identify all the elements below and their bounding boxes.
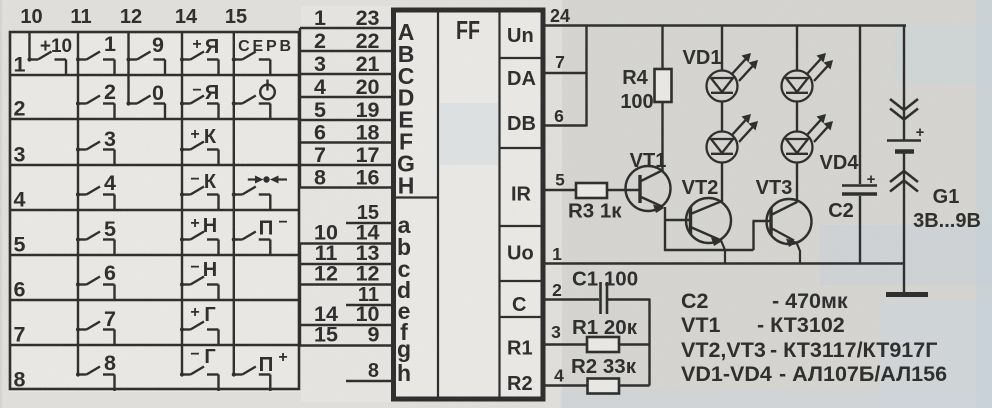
key label "П+" [259,349,288,376]
VD1 lower arrows [732,114,758,142]
VT2 collector wire [721,162,723,202]
ladder wire pin 8 [346,380,393,382]
VD1 chain top wire [721,25,723,72]
VT3 emitter bend wire [796,242,800,265]
key switch "−Г" (row 8, col 14) [180,367,219,392]
wire R3 to VT1 base [607,189,640,191]
key switch "5" (row 5, col 11) [76,232,115,257]
chip right strip divider y226 [500,225,543,227]
light scan area ladder [301,6,397,402]
key switch "2" (row 2, col 11) [76,96,115,121]
battery mid wire [903,153,905,292]
ladder wire pin 15 [346,222,393,224]
key switch "СЕРВ" (row 1, col 15) [232,52,271,77]
column 12 wire [127,31,129,104]
key switch "8" (row 8, col 11) [76,367,115,392]
VD4 upper arrows [807,53,833,81]
column 11 wire [77,31,79,375]
resistor R1 [587,337,619,352]
power symbol [260,80,275,100]
key switch "П−" (row 5, col 15) [232,232,271,257]
battery break chevrons upper [890,99,918,120]
key label "+Я" [192,36,219,58]
wire to VT3 base [753,220,772,222]
VD4 chain top wire [796,25,798,72]
pin 6 wire (DB) [542,124,587,126]
ladder left edge wire [299,28,301,188]
capacitor C2 [842,186,877,195]
chip interior [393,9,544,400]
blue tint bottom right [880,300,992,408]
pin 7 wire (DA) [542,72,587,74]
pin 5 wire (IR) [542,189,576,191]
C2 bottom wire [859,196,861,265]
key label "+К" [190,126,217,148]
ground rail wire (pin 1/Uo) [542,262,904,265]
ladder wire 15-9 [300,344,393,346]
resistor R4 [655,69,672,102]
key switch "9" (row 1, col 12) [126,52,165,77]
ladder wire 7-17 [300,164,393,166]
key label "−Н" [190,259,217,281]
key switch "+Я" (row 1, col 14) [180,52,219,77]
ladder 2 left edge wire [299,244,301,346]
ladder wire 6-18 [300,141,393,143]
key switch "+Г" (row 7, col 14) [180,322,219,347]
VD4 chain middle wire [796,101,798,132]
ladder wire 11-13 [300,263,393,265]
R4 to VT1 collector wire [661,102,663,172]
key switch "П+" (row 8, col 15) [232,367,271,392]
ladder wire 1-23 [300,27,393,29]
key switch "−Н" (row 6, col 14) [180,277,219,302]
chip right strip divider y58 [500,57,543,59]
supply rail wire (pin 24) [542,24,906,27]
VT1 emitter wire down [664,207,666,251]
R2 to node wire [619,384,650,386]
battery G1 plus plate [887,139,921,142]
keypad row 5 wire [9,254,299,256]
blue tint bottom strip [560,390,980,408]
keypad row 1 wire [9,74,299,76]
DA/DB junction wire [585,25,587,127]
key switch "0" (row 2, col 12) [126,96,165,121]
transistor VT3 [767,199,812,247]
LED VD4 (lower) [782,132,813,163]
VD1 upper arrows [732,53,758,81]
resistor R3 [576,183,607,198]
ladder wire 2-22 [300,50,393,52]
key switch "+К" (row 3, col 14) [180,142,219,167]
key switch "−К" (row 4, col 14) [180,187,219,212]
key label "−Г" [190,346,215,368]
ladder wire 8-16 [300,186,393,188]
LED VD1 (upper) [707,71,738,102]
LED VD1 chain (lower) [707,132,738,163]
capacitor C1 [601,282,608,314]
blue tint top right [895,25,992,85]
ladder wire pin 11 [346,304,393,306]
column 15 wire [233,31,235,375]
key switch "7" (row 7, col 11) [76,322,115,347]
pin 2 wire (C) [542,298,599,300]
bus to VT3 riser wire [752,221,754,250]
transistor VT1 [626,166,671,213]
key label "−Я" [192,82,219,104]
ladder wire 3-21 [300,73,393,75]
keypad row 4 wire [9,209,299,211]
blue tint mid right [820,225,992,285]
resistor R2 [588,379,620,394]
VT1 emitter to VT2 base wire [664,219,691,221]
blue tint chip body [440,103,498,165]
pin 3 wire (R1) [542,343,587,345]
keypad row 7 wire [9,344,299,346]
light scan area keypad [9,30,301,392]
chip right strip divider y317 [500,316,543,318]
key switch "3" (row 3, col 11) [76,142,115,167]
key switch "6" (row 6, col 11) [76,277,115,302]
ladder wire 4-20 [300,96,393,98]
key switch "+10" (row 1, col 10) [27,52,66,77]
blue tint right edge strip [976,0,992,408]
battery G1 minus plate [895,149,914,154]
arrows-to-dot symbol [248,176,287,184]
chip A-H / a-h separator [394,196,438,198]
key switch "−Я" (row 2, col 14) [180,96,219,121]
light scan area left [2,0,562,408]
column 14 wire [181,31,183,375]
R4 top wire [661,25,663,70]
chip right strip divider [498,9,500,399]
key label "−К" [190,171,217,193]
battery bottom terminal bar [886,292,928,297]
C2 top wire [859,25,861,185]
key label "П−" [259,214,288,240]
VT3 collector wire [796,162,798,203]
chip left strip divider [437,9,439,399]
keypad row 2 wire [9,118,299,120]
ladder wire 12-12 [300,283,393,285]
chip right strip divider y148 [500,147,543,149]
common node wire [648,299,650,386]
key switch "power" (row 2, col 15) [232,96,271,121]
key switch "4" (row 4, col 11) [76,187,115,212]
battery G1 top wire [903,25,905,140]
chip right strip divider y281 [500,280,543,282]
C1 to node wire [608,298,650,300]
ladder wire 14-10 [300,324,393,326]
keypad row 3 wire [9,164,299,166]
key label "+Г" [190,304,215,326]
ladder wire 10-14 [300,242,393,244]
column 10 stub wire [28,31,30,60]
battery break chevrons lower [890,171,918,192]
keypad row 6 wire [9,299,299,301]
VD4 lower arrows [807,114,833,142]
base bus wire [664,249,754,251]
key switch "1" (row 1, col 11) [76,52,115,77]
pin 4 wire (R2) [542,384,588,386]
op chip FF outline [394,10,544,399]
VT2 emitter bend wire [721,241,725,265]
ladder wire 5-19 [300,119,393,121]
keypad frame [10,32,299,389]
R1 to node wire [619,343,650,345]
LED VD4 chain (upper) [782,71,813,102]
key label "+Н" [190,215,217,237]
VD1 chain middle wire [721,101,723,132]
key switch "+Н" (row 5, col 14) [180,232,219,257]
transistor VT2 [686,198,731,246]
key switch "contact adjust" (row 4, col 15) [232,187,271,212]
